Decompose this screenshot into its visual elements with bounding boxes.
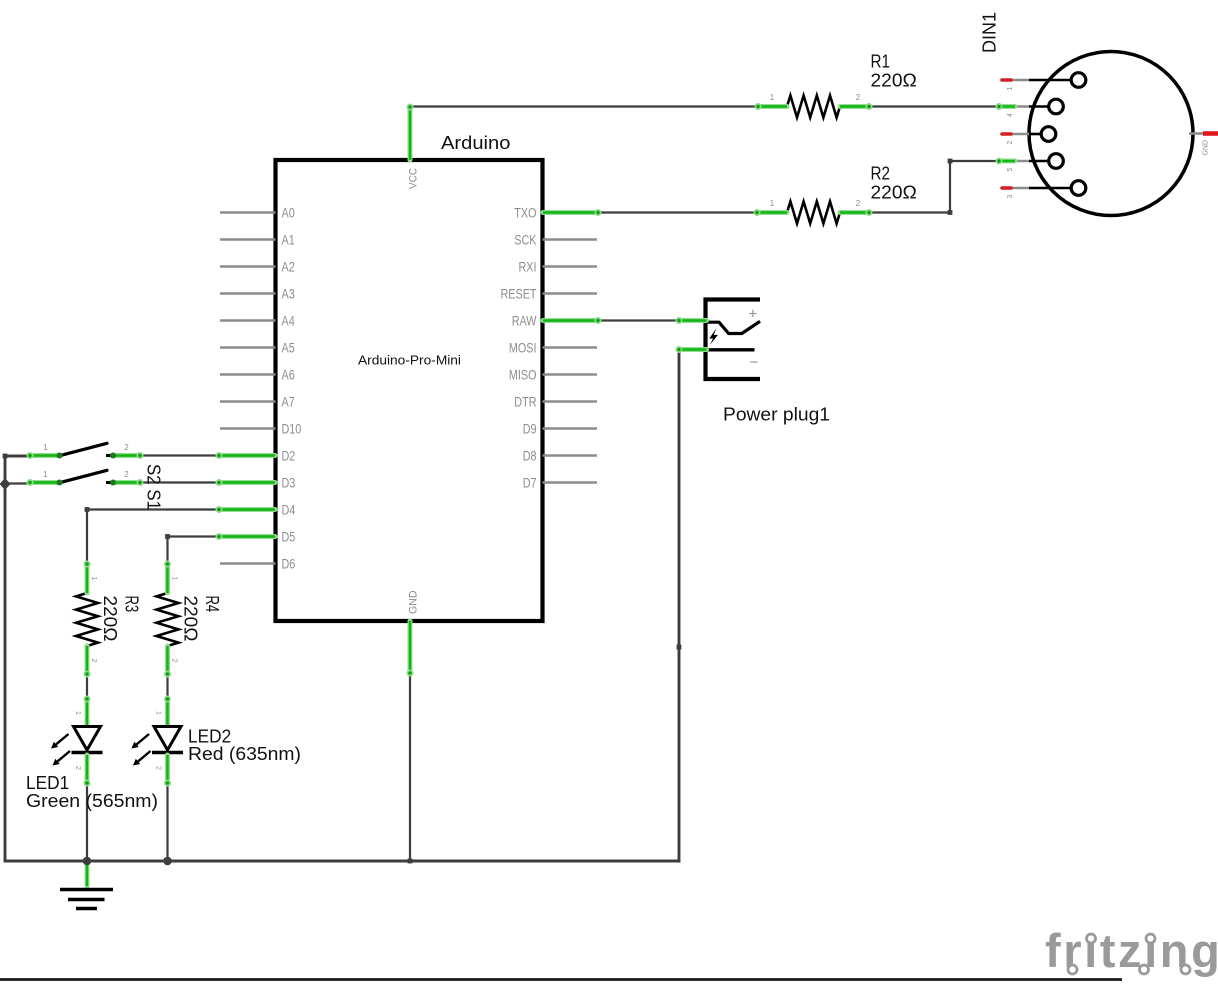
svg-text:A5: A5 <box>282 341 295 356</box>
svg-text:D10: D10 <box>282 422 302 437</box>
svg-text:−: − <box>750 354 759 371</box>
svg-text:MOSI: MOSI <box>509 341 537 356</box>
svg-text:GND: GND <box>1203 140 1210 156</box>
svg-text:+: + <box>749 306 758 323</box>
svg-text:RESET: RESET <box>501 287 537 302</box>
svg-text:220Ω: 220Ω <box>181 596 202 642</box>
svg-text:VCC: VCC <box>408 168 420 189</box>
svg-text:S2 S1: S2 S1 <box>144 464 165 510</box>
svg-text:D8: D8 <box>523 449 537 464</box>
svg-text:A7: A7 <box>282 395 295 410</box>
svg-text:Arduino: Arduino <box>441 132 510 153</box>
svg-text:D9: D9 <box>523 422 537 437</box>
svg-text:1: 1 <box>74 711 81 715</box>
svg-text:2: 2 <box>856 93 861 102</box>
svg-text:MISO: MISO <box>509 368 537 383</box>
svg-text:2: 2 <box>124 443 129 452</box>
svg-text:5: 5 <box>1007 168 1014 172</box>
svg-text:Arduino-Pro-Mini: Arduino-Pro-Mini <box>358 353 461 368</box>
svg-text:D7: D7 <box>523 476 537 491</box>
svg-text:A2: A2 <box>282 260 295 275</box>
svg-text:RXI: RXI <box>519 260 537 275</box>
svg-text:A0: A0 <box>282 206 295 221</box>
svg-text:A1: A1 <box>282 233 295 248</box>
svg-text:2: 2 <box>124 470 129 479</box>
svg-text:2: 2 <box>90 659 97 663</box>
svg-text:1: 1 <box>770 199 775 208</box>
svg-text:1: 1 <box>43 470 48 479</box>
svg-text:1: 1 <box>1007 87 1014 91</box>
svg-text:TXO: TXO <box>514 206 536 221</box>
svg-text:A6: A6 <box>282 368 295 383</box>
svg-text:DIN1: DIN1 <box>979 12 1000 53</box>
svg-text:D3: D3 <box>282 476 296 491</box>
svg-text:Green (565nm): Green (565nm) <box>26 790 158 811</box>
svg-text:2: 2 <box>74 766 81 770</box>
svg-text:1: 1 <box>90 577 97 581</box>
svg-text:220Ω: 220Ω <box>871 70 917 91</box>
svg-text:DTR: DTR <box>514 395 536 410</box>
svg-text:R3: R3 <box>122 596 143 613</box>
svg-text:SCK: SCK <box>514 233 536 248</box>
svg-text:1: 1 <box>770 93 775 102</box>
svg-text:D4: D4 <box>282 503 296 518</box>
svg-text:Power plug1: Power plug1 <box>723 405 830 425</box>
svg-text:R4: R4 <box>202 596 223 613</box>
svg-text:2: 2 <box>856 199 861 208</box>
svg-text:220Ω: 220Ω <box>871 182 917 203</box>
svg-text:2: 2 <box>171 659 178 663</box>
svg-text:1: 1 <box>155 711 162 715</box>
svg-text:D5: D5 <box>282 530 296 545</box>
svg-text:1: 1 <box>43 443 48 452</box>
svg-text:A3: A3 <box>282 287 295 302</box>
svg-text:1: 1 <box>171 577 178 581</box>
svg-text:A4: A4 <box>282 314 296 329</box>
svg-text:3: 3 <box>1007 195 1014 199</box>
svg-text:4: 4 <box>1007 113 1014 117</box>
svg-text:Red (635nm): Red (635nm) <box>188 743 301 764</box>
svg-text:220Ω: 220Ω <box>100 596 121 642</box>
svg-text:2: 2 <box>1007 141 1014 145</box>
svg-text:2: 2 <box>155 766 162 770</box>
svg-text:RAW: RAW <box>512 314 537 329</box>
svg-text:D2: D2 <box>282 449 296 464</box>
svg-text:GND: GND <box>408 590 420 614</box>
svg-text:D6: D6 <box>282 557 296 572</box>
